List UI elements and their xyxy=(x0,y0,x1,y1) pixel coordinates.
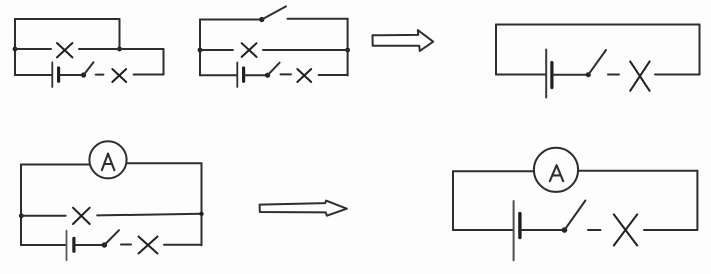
wire: circuit2 top wire right segment xyxy=(288,18,348,20)
wire: circuit3 top wire xyxy=(496,24,700,26)
battery B5 long plate xyxy=(513,201,515,260)
wire: circuit2 middle wire right segment xyxy=(263,49,348,51)
wire: circuit3 battery to switch xyxy=(553,74,588,76)
wire: circuit1 top wire xyxy=(15,18,120,20)
wire: circuit1 middle wire left segment xyxy=(15,48,51,50)
wire: circuit4 switch contact dash xyxy=(121,244,131,246)
arrow: top transform arrow xyxy=(373,30,434,51)
battery B5 short plate xyxy=(518,214,521,238)
wire: circuit4 left vertical xyxy=(20,165,22,246)
battery B4 short plate xyxy=(72,238,75,251)
wire: circuit5 bottom wire left segment xyxy=(453,229,513,231)
wire: circuit5 right vertical xyxy=(696,171,698,230)
ammeter A1 body xyxy=(89,141,126,178)
wire: circuit3 right vertical xyxy=(699,25,701,75)
lamp X1 xyxy=(57,43,72,57)
switch S2 pivot dot xyxy=(259,17,264,22)
wire: circuit2 left vertical xyxy=(199,20,201,76)
switch S3 pivot dot xyxy=(265,73,270,78)
wire: circuit1 branch vertical xyxy=(119,19,121,49)
wire: circuit2 top wire left segment xyxy=(200,19,262,21)
wire: circuit1 middle wire right segment xyxy=(79,48,164,50)
wire: circuit5 top wire right segment xyxy=(578,170,697,172)
wire: circuit3 bottom wire left segment xyxy=(496,74,545,76)
wire: circuit3 left vertical xyxy=(495,25,497,75)
wire: circuit2 middle wire left segment xyxy=(200,49,233,51)
wire: circuit5 lamp to right corner xyxy=(644,229,697,231)
wire: circuit3 lamp to right corner xyxy=(655,74,700,76)
switch S1 blade xyxy=(84,62,94,75)
switch S4 pivot dot xyxy=(586,72,591,77)
battery B3 long plate xyxy=(545,50,547,98)
wire: circuit4 battery to switch xyxy=(75,244,104,246)
arrow: bottom transform arrow xyxy=(260,201,347,216)
node: circuit1 left junction xyxy=(13,47,18,52)
lamp X5 xyxy=(630,61,649,90)
wire: circuit2 lamp to right corner xyxy=(319,74,348,76)
battery B1 short plate xyxy=(57,68,60,81)
battery B2 short plate xyxy=(242,68,245,81)
ammeter A2 label xyxy=(550,165,563,181)
wire: circuit2 switch contact dash xyxy=(281,73,292,75)
ammeter A2 body xyxy=(534,148,578,192)
wire: circuit4 right vertical xyxy=(201,163,203,245)
wire: circuit1 right vertical xyxy=(163,49,165,75)
wire: circuit3 switch contact dash xyxy=(608,74,619,76)
lamp X6 xyxy=(73,208,90,224)
lamp X2 xyxy=(112,69,126,82)
node: circuit1 right junction xyxy=(117,47,122,52)
wire: circuit1 left vertical xyxy=(14,19,16,75)
battery B1 long plate xyxy=(51,62,53,87)
wire: circuit2 right vertical xyxy=(347,19,349,76)
wire: circuit5 top wire left segment xyxy=(453,170,534,172)
lamp X4 xyxy=(297,69,311,82)
node: circuit2 right junction xyxy=(345,48,350,53)
wire: circuit2 bottom wire left segment xyxy=(200,74,236,76)
node: circuit2 left junction xyxy=(198,48,203,53)
node: circuit4 middle-right junction xyxy=(199,212,203,216)
lamp X3 xyxy=(242,43,257,57)
switch S4 blade xyxy=(588,50,606,75)
wire: circuit5 left vertical xyxy=(452,171,454,230)
switch S1 pivot dot xyxy=(81,72,86,77)
ammeter A1 label xyxy=(102,154,115,171)
wire: circuit4 bottom wire left segment xyxy=(21,244,66,246)
wire: circuit5 switch contact dash xyxy=(588,229,601,231)
wire: circuit1 battery to switch xyxy=(60,74,84,76)
switch S6 pivot dot xyxy=(562,227,568,233)
wire: circuit1 lamp to right corner xyxy=(134,74,164,76)
wire: circuit5 battery to switch xyxy=(521,229,564,231)
wire: circuit4 top wire left segment xyxy=(21,164,90,166)
switch S5 blade xyxy=(104,230,119,245)
wire: circuit1 switch contact dash xyxy=(96,74,104,76)
wire: circuit4 lamp to right corner xyxy=(164,244,202,246)
wire: circuit4 middle wire left segment xyxy=(21,215,66,217)
switch S2 blade xyxy=(262,6,286,19)
switch S5 pivot dot xyxy=(102,242,107,247)
wire: circuit2 battery to switch xyxy=(245,74,268,76)
battery B2 long plate xyxy=(236,62,238,87)
lamp X8 xyxy=(614,214,637,245)
wire: circuit4 middle wire right segment xyxy=(97,214,201,216)
lamp X7 xyxy=(139,237,158,254)
switch S3 blade xyxy=(268,63,280,75)
wire: circuit1 bottom wire left segment xyxy=(15,74,51,76)
battery B3 short plate xyxy=(550,63,553,88)
switch S6 blade xyxy=(565,201,586,231)
node: circuit4 middle-left junction xyxy=(19,213,24,218)
wire: circuit4 top wire right segment xyxy=(127,162,202,164)
battery B4 long plate xyxy=(66,231,68,261)
